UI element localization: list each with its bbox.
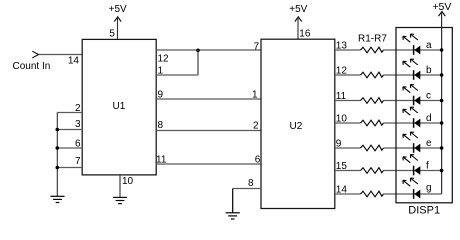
LED segment b (DISP1) <box>403 59 420 80</box>
svg-text:7: 7 <box>253 41 259 52</box>
svg-text:9: 9 <box>158 89 164 100</box>
wire ground bus vertical <box>56 113 58 197</box>
svg-text:U1: U1 <box>113 101 126 112</box>
wire U1 pin 8 to U2 pin 2 <box>156 130 261 132</box>
wire DISP1 anode rail vertical <box>441 12 443 194</box>
svg-text:9: 9 <box>336 138 342 149</box>
svg-text:2: 2 <box>253 121 259 132</box>
LED segment e (DISP1) <box>403 132 420 153</box>
wire U2 pin 16 to +5V <box>297 17 299 39</box>
svg-text:14: 14 <box>336 184 348 195</box>
IC U1 box <box>82 39 156 175</box>
svg-text:3: 3 <box>75 119 81 130</box>
wire R1 to LED a <box>384 49 442 51</box>
wire U2 pin 15 stub <box>335 170 361 172</box>
wire U1 pin 2 to ground bus <box>57 112 82 114</box>
wire U1 pin 12 to U2 pin 7 <box>156 49 261 51</box>
wire Count In to U1 pin 14 <box>39 54 83 56</box>
svg-text:2: 2 <box>75 103 81 114</box>
IC U2 box <box>261 39 335 208</box>
svg-text:6: 6 <box>255 154 261 165</box>
svg-text:11: 11 <box>336 91 347 102</box>
resistor R2 <box>361 72 384 78</box>
svg-text:7: 7 <box>75 156 81 167</box>
svg-text:12: 12 <box>158 54 170 65</box>
svg-text:b: b <box>426 65 432 76</box>
junction dot bus pin 7 <box>56 166 60 170</box>
svg-text:6: 6 <box>75 138 81 149</box>
wire U1 pin 11 to U2 pin 6 <box>156 163 261 165</box>
junction dot anode rail row f <box>440 169 444 173</box>
svg-text:a: a <box>426 40 432 51</box>
wire U2 pin 10 stub <box>335 122 361 124</box>
wire U2 pin 13 stub <box>335 49 361 51</box>
wire U1 pin 1 stub <box>156 74 198 76</box>
svg-text:+5V: +5V <box>289 4 307 15</box>
LED segment f (DISP1) <box>403 155 420 176</box>
svg-text:11: 11 <box>156 154 167 165</box>
svg-text:c: c <box>426 91 431 102</box>
wire U2 pin 9 stub <box>335 147 361 149</box>
wire R2 to LED b <box>384 74 442 76</box>
svg-text:8: 8 <box>248 178 254 189</box>
svg-text:d: d <box>426 113 432 124</box>
resistor R6 <box>361 168 384 174</box>
resistor R7 <box>361 191 384 197</box>
wire junction down to U1 pin 1 <box>197 50 199 75</box>
svg-text:13: 13 <box>336 40 348 51</box>
junction dot anode rail row c <box>440 99 444 103</box>
wire R7 to LED g <box>384 193 442 195</box>
resistor R1 <box>361 47 384 53</box>
junction dot anode rail row d <box>440 121 444 125</box>
svg-text:16: 16 <box>299 28 311 39</box>
svg-text:+5V: +5V <box>109 4 127 15</box>
svg-text:15: 15 <box>336 161 348 172</box>
LED segment a (DISP1) <box>403 34 420 55</box>
wire R3 to LED c <box>384 100 442 102</box>
junction dot anode rail row b <box>440 73 444 77</box>
power +5V symbol for U2 pin 16 <box>289 4 307 21</box>
svg-text:1: 1 <box>158 66 164 77</box>
svg-text:f: f <box>426 161 429 172</box>
svg-text:e: e <box>426 138 432 149</box>
wire R6 to LED f <box>384 170 442 172</box>
resistor R5 <box>361 145 384 151</box>
wire U1 pin 5 to +5V <box>117 17 119 39</box>
wire U2 pin 11 stub <box>335 100 361 102</box>
wire U2 pin 12 stub <box>335 74 361 76</box>
svg-text:DISP1: DISP1 <box>408 205 440 217</box>
wire R4 to LED d <box>384 122 442 124</box>
wire U1 pin 7 to ground bus <box>57 167 82 169</box>
input port arrow Count In <box>32 51 38 58</box>
LED segment d (DISP1) <box>403 107 420 128</box>
junction dot anode rail row e <box>440 146 444 150</box>
ground symbol U1 pin 10 <box>113 197 127 203</box>
svg-text:1: 1 <box>252 89 258 100</box>
wire U1 pin 6 to ground bus <box>57 147 82 149</box>
svg-text:5: 5 <box>109 28 115 39</box>
wire U2 pin 14 stub <box>335 193 361 195</box>
svg-text:Count In: Count In <box>13 61 51 72</box>
junction dot anode rail row a <box>440 48 444 52</box>
svg-text:U2: U2 <box>290 121 303 132</box>
wire U1 pin 9 to U2 pin 1 <box>156 98 261 100</box>
resistor R4 <box>361 120 384 126</box>
display DISP1 box <box>396 28 452 203</box>
junction dot node clk <box>196 49 200 53</box>
junction dot bus pin 6 <box>56 146 60 150</box>
ground symbol left bus <box>50 196 64 202</box>
svg-text:14: 14 <box>68 56 80 67</box>
ground symbol U2 pin 8 <box>226 189 240 220</box>
svg-text:g: g <box>426 183 432 194</box>
svg-text:12: 12 <box>336 65 348 76</box>
svg-text:10: 10 <box>122 176 134 187</box>
power +5V symbol for U1 pin 5 <box>109 4 127 21</box>
svg-text:8: 8 <box>158 120 164 131</box>
power +5V symbol for DISP1 anode rail <box>432 1 451 16</box>
svg-text:R1-R7: R1-R7 <box>358 34 387 45</box>
LED segment g (DISP1) <box>403 178 420 199</box>
LED segment c (DISP1) <box>403 85 420 106</box>
wire U1 pin 10 down <box>119 175 121 197</box>
resistor R3 <box>361 98 384 104</box>
svg-text:10: 10 <box>336 113 348 124</box>
wire U1 pin 3 to ground bus <box>57 129 82 131</box>
junction dot bus pin 3 <box>56 128 60 132</box>
wire R5 to LED e <box>384 147 442 149</box>
wire U2 pin 8 left <box>233 188 261 190</box>
